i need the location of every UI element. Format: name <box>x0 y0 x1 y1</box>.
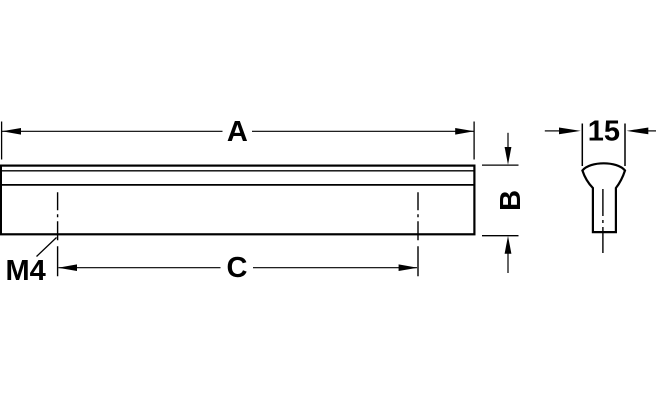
svg-text:15: 15 <box>588 116 620 148</box>
svg-text:M4: M4 <box>6 255 46 287</box>
svg-text:B: B <box>495 190 527 211</box>
svg-text:C: C <box>227 252 248 284</box>
svg-text:A: A <box>227 116 248 148</box>
